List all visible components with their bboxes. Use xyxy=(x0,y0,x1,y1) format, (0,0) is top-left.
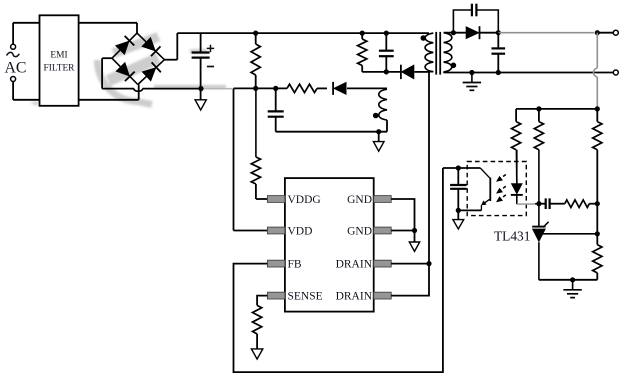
svg-text:FILTER: FILTER xyxy=(44,64,76,74)
svg-text:FB: FB xyxy=(288,258,302,270)
svg-text:SENSE: SENSE xyxy=(288,290,323,302)
svg-text:TL431: TL431 xyxy=(494,229,530,244)
svg-text:EMI: EMI xyxy=(50,51,67,61)
svg-text:DRAIN: DRAIN xyxy=(336,258,373,270)
svg-text:VDDG: VDDG xyxy=(288,194,321,206)
svg-text:VDD: VDD xyxy=(288,225,313,237)
svg-text:AC: AC xyxy=(5,59,27,76)
svg-text:DRAIN: DRAIN xyxy=(336,290,373,302)
svg-text:GND: GND xyxy=(347,225,372,237)
svg-text:GND: GND xyxy=(347,194,372,206)
